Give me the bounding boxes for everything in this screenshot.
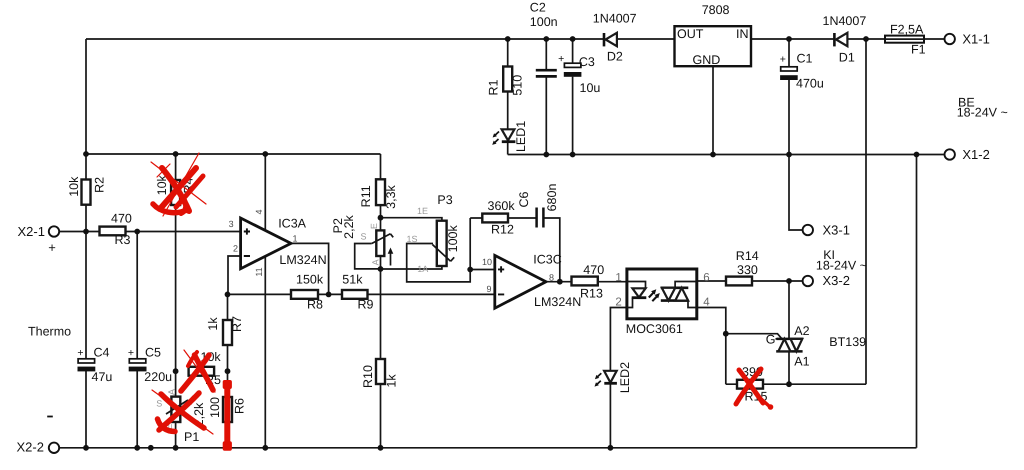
svg-text:R12: R12 (491, 222, 514, 236)
resistor R15 (737, 380, 763, 389)
svg-text:8: 8 (549, 272, 554, 282)
svg-text:C2: C2 (530, 1, 546, 15)
wire rail B (508, 154, 945, 156)
svg-text:X3-2: X3-2 (823, 273, 850, 288)
svg-text:A: A (371, 259, 381, 265)
svg-text:R8: R8 (307, 298, 323, 312)
svg-text:510: 510 (510, 75, 524, 96)
wire D1 fuse row (751, 38, 945, 40)
wire MOC pin6 / R14 row (697, 280, 803, 282)
wire R4/R5/P1 vertical (175, 154, 177, 448)
svg-text:MOC3061: MOC3061 (626, 322, 683, 336)
svg-text:R6: R6 (232, 398, 246, 414)
svg-text:LM324N: LM324N (534, 295, 581, 309)
resistor R7 (223, 320, 232, 345)
wire IC3C output / R13 row (546, 281, 627, 283)
diode D1 (833, 33, 847, 47)
triac BT139 (776, 339, 803, 352)
svg-text:150k: 150k (296, 273, 324, 287)
wire P2/R10 vertical (380, 218, 382, 448)
wire P3 S loop (407, 218, 471, 282)
wire C6 to IC3C out (544, 218, 560, 282)
svg-text:F2,5A: F2,5A (890, 22, 924, 36)
capacitor C1 (780, 67, 798, 80)
svg-text:R11: R11 (359, 185, 373, 207)
resistor R11 (376, 179, 385, 205)
terminal X2-1 (49, 226, 59, 236)
svg-text:6: 6 (703, 272, 709, 284)
terminal X1-1 (945, 34, 955, 44)
wire 7808 GND pin (712, 66, 714, 154)
wire to X3-1 (789, 155, 803, 231)
wire MOC pin2 to LED2 (610, 308, 627, 448)
svg-text:+: + (48, 240, 56, 255)
svg-text:R14: R14 (736, 249, 759, 263)
capacitor C4 (78, 359, 96, 372)
svg-text:2: 2 (615, 297, 621, 309)
diode D2 (603, 33, 617, 47)
wire 1A net (381, 262, 442, 269)
svg-text:F1: F1 (911, 42, 926, 56)
LED1 (492, 129, 515, 145)
wire C3 branch (572, 39, 574, 155)
svg-text:C3: C3 (579, 55, 595, 69)
wire R11 branch (380, 154, 382, 218)
resistor R12 (482, 214, 508, 223)
svg-text:10k: 10k (67, 176, 81, 197)
svg-text:S: S (361, 232, 367, 242)
wire triac gate (726, 334, 783, 339)
wire P2 S loop (355, 244, 381, 269)
svg-text:470: 470 (111, 212, 132, 226)
svg-text:220u: 220u (144, 370, 172, 384)
wire 1E net (381, 218, 442, 225)
red cross over R4 (151, 153, 206, 216)
wire triac A2 (788, 281, 790, 339)
resistor R2 (82, 180, 91, 205)
svg-text:1E: 1E (417, 206, 428, 216)
svg-text:3: 3 (229, 219, 234, 229)
svg-text:1k: 1k (384, 374, 398, 388)
svg-text:R7: R7 (230, 316, 244, 332)
svg-text:R13: R13 (580, 286, 603, 300)
svg-text:2,2k: 2,2k (342, 214, 356, 238)
svg-text:18-24V ~: 18-24V ~ (816, 258, 867, 272)
svg-text:IN: IN (736, 27, 749, 41)
red cross over R15 (736, 369, 773, 410)
svg-text:4: 4 (703, 297, 710, 309)
wire left vertical branch (85, 39, 87, 448)
svg-text:9: 9 (487, 284, 492, 294)
wire IC3C pin10 (470, 269, 495, 271)
resistor R10 (376, 359, 385, 384)
svg-text:3,3k: 3,3k (384, 184, 398, 208)
MOC3061 internal LED (627, 282, 646, 308)
svg-text:1S: 1S (407, 234, 418, 244)
svg-text:1k: 1k (206, 317, 220, 331)
svg-text:GND: GND (693, 53, 721, 67)
svg-text:51k: 51k (342, 272, 363, 286)
svg-text:G: G (766, 333, 776, 347)
wire right vertical x=866 (865, 39, 867, 384)
wire R12 row (470, 217, 536, 219)
resistor R1 (503, 67, 512, 92)
junction node dots (83, 36, 919, 451)
svg-text:A1: A1 (794, 354, 809, 368)
svg-text:P3: P3 (437, 193, 452, 207)
wire IC3A pin2 (228, 256, 241, 294)
capacitor C5 (129, 359, 147, 372)
resistor R13 (572, 277, 598, 286)
wire bottom rail (60, 447, 917, 449)
terminal X3-1 (803, 225, 813, 235)
svg-text:X1-1: X1-1 (962, 32, 989, 47)
svg-text:100: 100 (208, 397, 222, 418)
fuse F1 (885, 36, 924, 43)
svg-text:X2-1: X2-1 (18, 224, 45, 239)
wire feedback row R8 R9 (228, 293, 495, 295)
svg-text:LED2: LED2 (618, 362, 632, 393)
svg-text:100n: 100n (530, 15, 558, 29)
svg-text:X3-1: X3-1 (823, 222, 850, 237)
capacitor C2 (536, 70, 557, 76)
svg-text:A: A (167, 389, 177, 395)
svg-text:470u: 470u (796, 77, 824, 91)
svg-text:OUT: OUT (677, 27, 704, 41)
resistor R4 (171, 180, 180, 205)
wire C5 branch (136, 232, 138, 448)
op-amp IC3A (241, 218, 291, 269)
svg-text:10u: 10u (580, 81, 601, 95)
svg-text:X2-2: X2-2 (17, 440, 44, 455)
wire R15 row (726, 383, 866, 385)
svg-text:D2: D2 (607, 50, 623, 64)
svg-text:LED1: LED1 (514, 121, 528, 152)
MOC3061 internal triac (661, 282, 697, 308)
svg-text:330: 330 (737, 263, 758, 277)
wire right vertical x=916.5 (916, 155, 918, 448)
svg-text:C4: C4 (94, 346, 110, 360)
svg-text:+: + (128, 347, 134, 359)
svg-text:100k: 100k (446, 224, 460, 252)
label minus X2-2 (47, 416, 53, 418)
resistor R5 (189, 367, 215, 376)
wire IC3A output (291, 243, 329, 294)
svg-text:+: + (558, 53, 564, 65)
svg-text:S: S (156, 398, 162, 408)
svg-text:C5: C5 (145, 346, 161, 360)
capacitor C6 (537, 208, 544, 228)
op-amp IC3C (495, 255, 546, 308)
svg-text:C6: C6 (517, 191, 531, 207)
wire C1 branch (788, 39, 790, 155)
svg-text:1A: 1A (417, 264, 428, 274)
potentiometer P1 (166, 396, 193, 423)
wire R1/LED1 branch (507, 39, 509, 155)
svg-text:11: 11 (254, 267, 264, 276)
wire C2 branch (545, 39, 547, 155)
svg-text:Thermo: Thermo (28, 325, 71, 339)
svg-text:470: 470 (583, 263, 604, 277)
svg-text:R10: R10 (361, 365, 375, 388)
terminal X3-2 (803, 276, 813, 286)
svg-text:18-24V ~: 18-24V ~ (957, 105, 1008, 119)
svg-text:IC3C: IC3C (533, 252, 561, 266)
svg-text:4: 4 (254, 209, 264, 214)
svg-text:47u: 47u (92, 370, 113, 384)
svg-text:D1: D1 (839, 50, 855, 64)
red short line over R6 (223, 380, 232, 451)
svg-text:1N4007: 1N4007 (823, 14, 867, 28)
optocoupler MOC3061 box (627, 269, 697, 319)
svg-text:1: 1 (293, 233, 298, 243)
wire rail A (86, 153, 381, 155)
wire R7 R6 vertical (227, 294, 229, 447)
svg-text:R3: R3 (115, 233, 131, 247)
resistor R8 (291, 290, 318, 299)
regulator 7808 box (675, 26, 752, 66)
svg-text:R9: R9 (358, 298, 374, 312)
svg-text:10: 10 (482, 257, 492, 267)
LED2 (595, 371, 617, 387)
svg-text:IC3A: IC3A (278, 216, 306, 230)
MOC3061 internal arrows (649, 289, 660, 301)
svg-text:1: 1 (615, 272, 621, 284)
wire IC3A pin4/pin11 vertical (264, 154, 266, 448)
red cross over R5 (181, 350, 215, 392)
wire top V+ rail (86, 38, 675, 40)
svg-text:1N4007: 1N4007 (593, 11, 637, 25)
svg-text:R1: R1 (487, 79, 501, 95)
svg-text:+: + (77, 347, 83, 359)
svg-text:360k: 360k (488, 199, 516, 213)
svg-text:BT139: BT139 (829, 335, 866, 349)
red cross over P1 (152, 390, 213, 434)
resistor R3 (100, 227, 126, 236)
potentiometer P2 (372, 230, 394, 265)
resistor R9 (342, 290, 368, 299)
svg-text:7808: 7808 (702, 3, 730, 17)
resistor R6 (223, 397, 232, 422)
svg-text:C1: C1 (797, 52, 813, 66)
svg-text:X1-2: X1-2 (962, 147, 989, 162)
potentiometer P3 (432, 221, 454, 266)
svg-text:680n: 680n (545, 184, 559, 212)
svg-text:P1: P1 (184, 430, 199, 444)
svg-text:A2: A2 (794, 324, 809, 338)
wire X2-1 row (60, 231, 241, 233)
terminal X2-2 (49, 443, 59, 453)
terminal X1-2 (945, 149, 955, 159)
svg-text:LM324N: LM324N (279, 253, 326, 267)
svg-text:E: E (369, 223, 379, 229)
wire triac A1 (788, 351, 790, 384)
capacitor C3 (564, 63, 582, 77)
svg-text:R2: R2 (93, 177, 107, 193)
svg-text:+: + (780, 53, 786, 65)
svg-text:2: 2 (233, 244, 238, 254)
resistor R14 (726, 277, 752, 286)
wire MOC pin4 (697, 308, 726, 385)
